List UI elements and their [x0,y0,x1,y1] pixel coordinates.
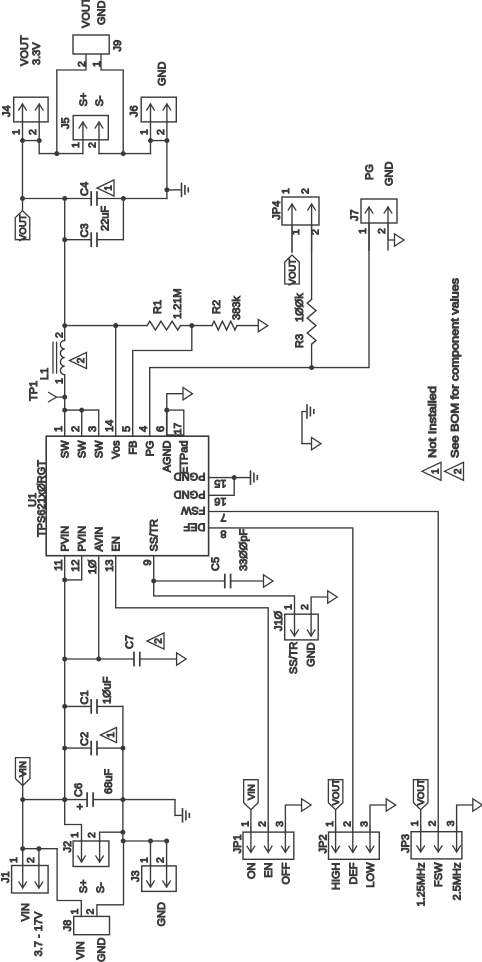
svg-text:1ØØk: 1ØØk [294,293,306,322]
svg-text:S+: S+ [78,93,90,107]
svg-text:1: 1 [357,228,369,234]
svg-text:PVIN: PVIN [77,526,89,552]
svg-text:1: 1 [54,378,66,384]
svg-text:J1Ø: J1Ø [273,610,285,631]
svg-text:2: 2 [154,638,165,644]
svg-text:DEF: DEF [183,520,205,532]
svg-text:1: 1 [104,185,115,191]
svg-text:TPS621xØRGT: TPS621xØRGT [36,460,48,537]
svg-text:2: 2 [155,129,167,135]
svg-text:9: 9 [142,560,154,566]
svg-text:68uF: 68uF [103,769,115,794]
svg-text:3: 3 [87,426,99,432]
svg-text:2: 2 [300,188,312,194]
svg-text:J4: J4 [1,105,13,117]
svg-text:7: 7 [220,511,226,523]
svg-text:C7: C7 [124,635,136,649]
svg-text:C5: C5 [210,557,222,571]
svg-text:SW: SW [77,440,89,458]
svg-text:1: 1 [324,821,336,827]
svg-text:1: 1 [431,468,442,474]
svg-text:JP3: JP3 [400,834,412,853]
svg-text:EN: EN [111,536,123,551]
svg-text:2: 2 [87,142,99,148]
svg-text:1: 1 [106,732,117,738]
svg-text:SS/TR: SS/TR [288,642,300,674]
svg-text:1.25MHz: 1.25MHz [416,863,428,907]
svg-text:C4: C4 [79,182,91,196]
svg-text:VOUT: VOUT [19,35,31,66]
svg-text:22uF: 22uF [100,206,112,231]
svg-text:+: + [75,803,87,809]
svg-text:ON: ON [246,862,258,879]
svg-text:JP4: JP4 [271,201,283,220]
svg-text:16: 16 [214,495,226,507]
svg-text:J1: J1 [0,871,12,883]
svg-text:3.7 - 17V: 3.7 - 17V [33,911,45,956]
svg-text:S-: S- [94,95,106,106]
svg-text:2: 2 [257,821,269,827]
svg-text:3: 3 [359,821,371,827]
svg-text:GND: GND [157,62,169,87]
svg-text:11: 11 [53,560,65,571]
svg-text:1: 1 [280,188,292,194]
svg-text:2: 2 [341,821,353,827]
svg-text:R3: R3 [294,334,306,348]
svg-text:1: 1 [70,142,82,148]
svg-text:GND: GND [96,938,108,962]
svg-text:SW: SW [60,440,72,458]
svg-text:GND: GND [96,1,108,26]
svg-text:EN: EN [263,862,275,877]
svg-text:1Ø: 1Ø [87,559,99,574]
svg-text:14: 14 [104,420,116,432]
svg-text:4: 4 [138,426,150,432]
svg-text:Not Installed: Not Installed [427,386,439,458]
svg-text:J9: J9 [112,40,124,52]
svg-text:J8: J8 [62,920,74,932]
svg-text:SS/TR: SS/TR [149,519,161,551]
svg-text:1.21M: 1.21M [172,288,184,319]
svg-text:1: 1 [283,604,295,610]
svg-text:C2: C2 [79,732,91,746]
svg-text:2: 2 [85,909,97,915]
svg-text:1: 1 [69,909,81,915]
svg-text:2: 2 [299,604,311,610]
svg-text:HIGH: HIGH [331,862,343,890]
svg-text:17: 17 [172,423,184,435]
svg-text:2: 2 [453,468,464,474]
svg-text:GND: GND [156,902,168,927]
svg-text:ETPad: ETPad [179,441,191,475]
svg-text:PG: PG [364,164,376,180]
svg-text:AVIN: AVIN [94,527,106,552]
svg-text:PGND: PGND [174,470,206,482]
svg-text:2.5MHz: 2.5MHz [452,863,464,901]
svg-text:VOUT: VOUT [288,259,299,286]
svg-text:S+: S+ [78,879,90,893]
svg-text:FSW: FSW [433,862,445,887]
svg-text:33ØØpF: 33ØØpF [238,529,250,571]
svg-text:2: 2 [155,857,167,863]
svg-text:VIN: VIN [246,784,257,800]
svg-text:AGND: AGND [162,440,174,472]
svg-text:1ØuF: 1ØuF [102,676,114,704]
svg-text:VIN: VIN [75,941,87,959]
svg-text:6: 6 [155,426,167,432]
svg-text:GND: GND [384,162,396,187]
svg-text:12: 12 [70,560,82,572]
svg-text:3.3V: 3.3V [31,42,43,65]
svg-text:J6: J6 [129,105,141,117]
svg-text:JP2: JP2 [318,834,330,853]
svg-text:3: 3 [274,821,286,827]
svg-text:8: 8 [220,527,226,539]
svg-text:OFF: OFF [280,862,292,884]
svg-text:SW: SW [94,440,106,458]
svg-text:2: 2 [25,857,37,863]
svg-text:R2: R2 [211,300,223,314]
svg-text:VOUT: VOUT [81,0,93,28]
svg-text:LOW: LOW [365,862,377,888]
svg-text:1: 1 [139,129,151,135]
svg-text:1: 1 [69,832,81,838]
svg-text:See BOM for component values: See BOM for component values [450,277,462,458]
svg-text:VOUT: VOUT [416,779,427,806]
svg-text:TP1: TP1 [28,381,40,401]
svg-text:2: 2 [427,820,439,826]
svg-text:2: 2 [54,332,66,338]
svg-text:J7: J7 [349,209,361,221]
svg-text:GND: GND [306,642,318,667]
svg-text:PVIN: PVIN [60,526,72,552]
svg-text:1: 1 [8,857,20,863]
svg-text:3: 3 [445,820,457,826]
svg-text:VOUT: VOUT [18,214,29,241]
svg-text:1: 1 [11,129,23,135]
svg-text:FSW: FSW [180,504,205,516]
svg-text:FB: FB [128,441,140,455]
svg-text:2: 2 [76,357,87,363]
svg-text:J5: J5 [60,117,72,129]
svg-text:1: 1 [239,821,251,827]
svg-text:DEF: DEF [348,862,360,884]
svg-text:1: 1 [409,820,421,826]
svg-text:VIN: VIN [20,903,32,921]
svg-text:2: 2 [376,228,388,234]
svg-text:2: 2 [70,426,82,432]
svg-text:Vos: Vos [111,440,123,459]
svg-text:S-: S- [95,882,107,893]
svg-text:PG: PG [145,441,157,457]
svg-text:PGND: PGND [174,488,206,500]
svg-text:383k: 383k [231,296,243,320]
svg-text:L1: L1 [39,368,51,380]
svg-text:VOUT: VOUT [331,779,342,806]
svg-text:C6: C6 [73,783,85,797]
svg-text:5: 5 [121,426,133,432]
svg-text:1: 1 [139,857,151,863]
svg-text:2: 2 [86,832,98,838]
svg-text:JP1: JP1 [232,834,244,853]
svg-text:1: 1 [53,426,65,432]
svg-text:R1: R1 [152,300,164,314]
svg-text:C3: C3 [79,223,91,237]
svg-text:2: 2 [27,129,39,135]
svg-text:J2: J2 [62,841,74,853]
svg-text:VIN: VIN [18,761,29,777]
svg-text:C1: C1 [79,690,91,704]
svg-text:15: 15 [214,477,226,489]
svg-text:J3: J3 [130,870,142,882]
svg-text:13: 13 [104,560,116,572]
